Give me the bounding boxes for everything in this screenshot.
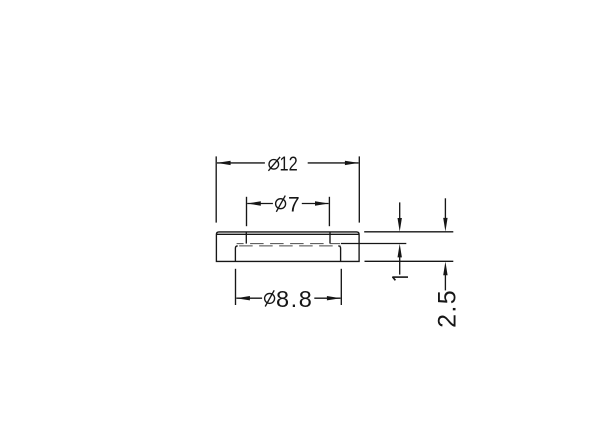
hidden recess ceiling (dashed) (237, 243, 341, 245)
svg-text:12: 12 (280, 152, 298, 175)
svg-text:7: 7 (288, 193, 300, 216)
svg-text:8.8: 8.8 (276, 286, 313, 312)
dim Ø7 diameter symbol (276, 196, 286, 212)
dim 1 upper leader (399, 202, 401, 225)
dim 2.5 lower leader (444, 268, 446, 290)
dim Ø7 line right segment (302, 203, 329, 205)
part top fillet tangent line (216, 233, 359, 235)
dim Ø7 arrow left (247, 201, 261, 205)
dim 2.5 arrow up (443, 262, 447, 276)
dim 1 text (rotated): drawn as strokes to match CAD glyph (392, 277, 408, 280)
dim 1 arrow down (398, 218, 402, 232)
part outer body outline (216, 232, 359, 262)
dim Ø7 arrow right (315, 201, 329, 205)
dim 2.5 upper leader (444, 198, 446, 225)
dim Ø7 line left segment (247, 203, 273, 205)
dim Ø8.8 extension line left (235, 269, 237, 305)
dim Ø12 arrow left (217, 161, 231, 165)
dim Ø12 line right segment (308, 162, 359, 164)
recess wall left (Ø8.8) (235, 246, 237, 262)
dim Ø8.8 line right segment (314, 297, 340, 299)
dim 1 lower leader (399, 250, 401, 275)
dim Ø8.8 line left segment (236, 297, 262, 299)
dim 2.5 arrow down (443, 218, 447, 232)
right bottom extension line (365, 260, 454, 262)
dim Ø12 line left segment (217, 162, 265, 164)
dim Ø8.8 diameter symbol (265, 290, 275, 306)
svg-text:2.5: 2.5 (434, 289, 462, 328)
hidden fillet tangent (dashed) (235, 245, 340, 247)
right top extension line (364, 231, 453, 233)
dim Ø8.8 arrow right (327, 296, 341, 300)
dim Ø12 diameter symbol (268, 157, 280, 171)
dim Ø12 arrow right (345, 161, 359, 165)
dim Ø7 extension line left (246, 197, 248, 226)
dim Ø12 extension line left (215, 156, 217, 222)
dim Ø8.8 arrow left (236, 296, 250, 300)
hole edge line left (Ø7) (245, 232, 247, 244)
hole edge line right (Ø7) (329, 232, 331, 244)
dim 1 arrow up (398, 244, 402, 258)
dim Ø12 extension line right (358, 156, 360, 222)
right middle extension line (depth 1 reference) (341, 243, 406, 245)
dim Ø8.8 extension line right (340, 269, 342, 305)
recess wall right (Ø8.8) (338, 246, 340, 262)
dim Ø7 extension line right (328, 197, 330, 226)
